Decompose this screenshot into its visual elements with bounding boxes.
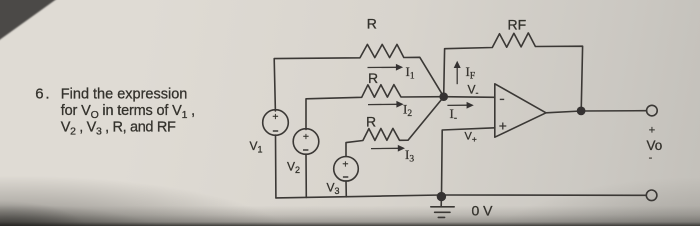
voltage source V2 xyxy=(293,129,319,155)
voltage source V1 xyxy=(263,110,289,136)
node: ground junction xyxy=(437,192,446,201)
op-amp plus sign xyxy=(499,123,506,130)
svg-text:I3: I3 xyxy=(405,147,414,165)
svg-text:+: + xyxy=(342,159,348,171)
wire: V2 bottom stub xyxy=(305,154,307,197)
wire: non-inverting input to ground rail xyxy=(442,128,495,196)
wire: op-amp output to terminal xyxy=(546,111,646,113)
feedback wire with resistor RF xyxy=(444,33,583,107)
node: output junction xyxy=(577,107,586,116)
wire: summing node to inverting input xyxy=(444,96,495,99)
svg-text:R: R xyxy=(368,70,378,86)
current arrow I2 xyxy=(368,103,397,105)
svg-text:IF: IF xyxy=(466,64,476,82)
svg-text:RF: RF xyxy=(508,17,527,33)
op-amp U1 xyxy=(495,84,546,137)
svg-text:I1: I1 xyxy=(406,64,415,82)
svg-text:Vo: Vo xyxy=(647,138,663,153)
output terminal (top, open circle) xyxy=(647,105,658,116)
svg-text:V1: V1 xyxy=(250,139,263,155)
current arrow IF (vertical, up) xyxy=(456,67,458,85)
svg-text:0 V: 0 V xyxy=(472,203,494,219)
svg-text:R: R xyxy=(366,113,376,129)
svg-text:I-: I- xyxy=(450,106,458,124)
ground stub xyxy=(440,196,442,206)
svg-text:+: + xyxy=(303,131,309,143)
svg-text:+: + xyxy=(272,111,278,123)
wire: bottom ground rail xyxy=(276,195,646,198)
svg-text:for VO in terms of V1 ,: for VO in terms of V1 , xyxy=(61,103,195,121)
svg-text:I2: I2 xyxy=(403,101,412,119)
dark photo corner (top-left page edge) xyxy=(0,0,58,41)
wire: V1 top stub, top rail and resistor R1 branch to summing node xyxy=(274,44,444,111)
wire: V2 top stub and resistor R2 branch to summing node xyxy=(306,85,444,130)
svg-text:V-: V- xyxy=(468,83,479,99)
current arrow I3 xyxy=(371,147,399,149)
svg-text:Find the expression: Find the expression xyxy=(61,86,188,102)
node: summing junction xyxy=(439,92,448,101)
svg-text:R: R xyxy=(367,16,377,32)
wire: V1 bottom stub xyxy=(275,135,277,198)
wire: V3 bottom stub xyxy=(345,181,347,197)
svg-text:V2 , V3 , R, and RF: V2 , V3 , R, and RF xyxy=(61,120,176,138)
current arrow I1 xyxy=(368,66,397,68)
svg-text:V3: V3 xyxy=(327,181,340,197)
output terminal (bottom, open circle) xyxy=(646,190,657,201)
wire: V3 top stub and resistor R3 branch to summing node xyxy=(346,97,444,157)
svg-text:+: + xyxy=(649,124,655,136)
op-amp minus sign xyxy=(500,98,504,100)
svg-text:V2: V2 xyxy=(287,160,300,176)
svg-text:-: - xyxy=(649,152,653,164)
svg-text:V+: V+ xyxy=(465,131,477,145)
voltage source V3 xyxy=(334,157,359,182)
current arrow I- xyxy=(447,104,467,106)
ground symbol xyxy=(431,207,454,218)
svg-text:6.: 6. xyxy=(35,85,51,102)
